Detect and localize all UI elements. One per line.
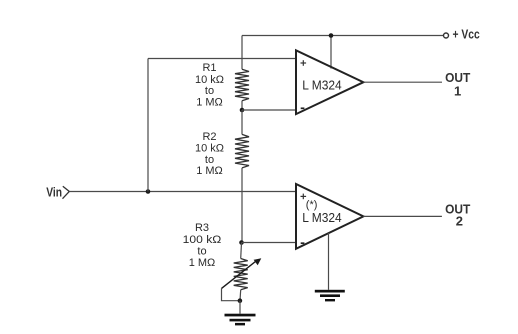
node: op1 power junction on Vcc rail — [329, 33, 334, 38]
svg-text:R3: R3 — [195, 222, 209, 234]
svg-text:R2: R2 — [202, 131, 216, 143]
wire node C to ground — [239, 301, 241, 314]
svg-text:L M324: L M324 — [302, 77, 342, 92]
svg-text:2: 2 — [456, 214, 463, 229]
wiper arrow of R3 — [222, 258, 262, 288]
wire +Vcc rail — [242, 35, 443, 37]
wire R1 bottom to node A — [241, 101, 243, 110]
resistor R3 variable — [234, 259, 248, 290]
wire op2 ground stub — [328, 233, 330, 290]
svg-text:1 MΩ: 1 MΩ — [189, 257, 216, 269]
wire op2 output — [363, 215, 442, 217]
wire Vin line to op2 non-inverting input — [69, 191, 296, 193]
resistor R1 — [235, 69, 249, 101]
svg-text:to: to — [197, 246, 206, 258]
node C: R3 bottom / ground junction — [238, 298, 243, 303]
wire op1 non-inverting input line — [148, 58, 296, 60]
node B: R2/R3/op2 inverting junction — [239, 240, 244, 245]
wire R3 bottom to node C — [239, 290, 242, 301]
op-amp U1 minus marker — [301, 107, 305, 109]
op-amp U2 plus marker — [301, 194, 307, 200]
svg-text:R1: R1 — [202, 62, 216, 74]
resistor R2 — [235, 134, 249, 168]
wire node B to R3 top — [240, 243, 243, 259]
svg-text:Vin: Vin — [46, 185, 62, 200]
svg-text:L M324: L M324 — [302, 210, 342, 225]
wire R1 top to Vcc rail — [241, 36, 243, 70]
wire op1 power stub — [330, 36, 332, 69]
wire op1 output — [363, 81, 442, 83]
svg-text:10 kΩ: 10 kΩ — [195, 143, 224, 155]
svg-text:1 MΩ: 1 MΩ — [196, 165, 223, 177]
svg-text:+ Vcc: + Vcc — [453, 27, 480, 42]
op-amp U1 plus marker — [301, 60, 307, 66]
ground below op-amp U2 — [315, 290, 345, 302]
svg-text:OUT: OUT — [445, 70, 470, 85]
wire node A to R2 top — [241, 110, 243, 134]
svg-text:to: to — [205, 85, 214, 97]
terminal Vin chevron — [63, 186, 70, 198]
svg-text:1: 1 — [454, 84, 461, 99]
svg-text:100 kΩ: 100 kΩ — [183, 234, 222, 246]
op-amp U2 triangle — [296, 184, 363, 249]
ground below R3 — [225, 314, 256, 326]
wire R3 wiper to bottom terminal — [222, 288, 240, 300]
op-amp U1 triangle — [296, 50, 363, 114]
wire node B to op2 inverting input — [242, 242, 297, 244]
svg-text:1 MΩ: 1 MΩ — [196, 97, 223, 109]
op-amp U2 minus marker — [301, 242, 305, 244]
node A: R1/R2/op1 inverting junction — [240, 108, 245, 113]
node D: Vin / feedback junction — [146, 189, 151, 194]
terminal +Vcc open circle — [444, 33, 449, 38]
wire feedback vertical node D to op1 non-inverting line — [147, 59, 149, 192]
wire R2 bottom to node B (crosses Vin line, no connection) — [241, 168, 243, 243]
wire node A to op1 inverting input — [242, 109, 297, 111]
